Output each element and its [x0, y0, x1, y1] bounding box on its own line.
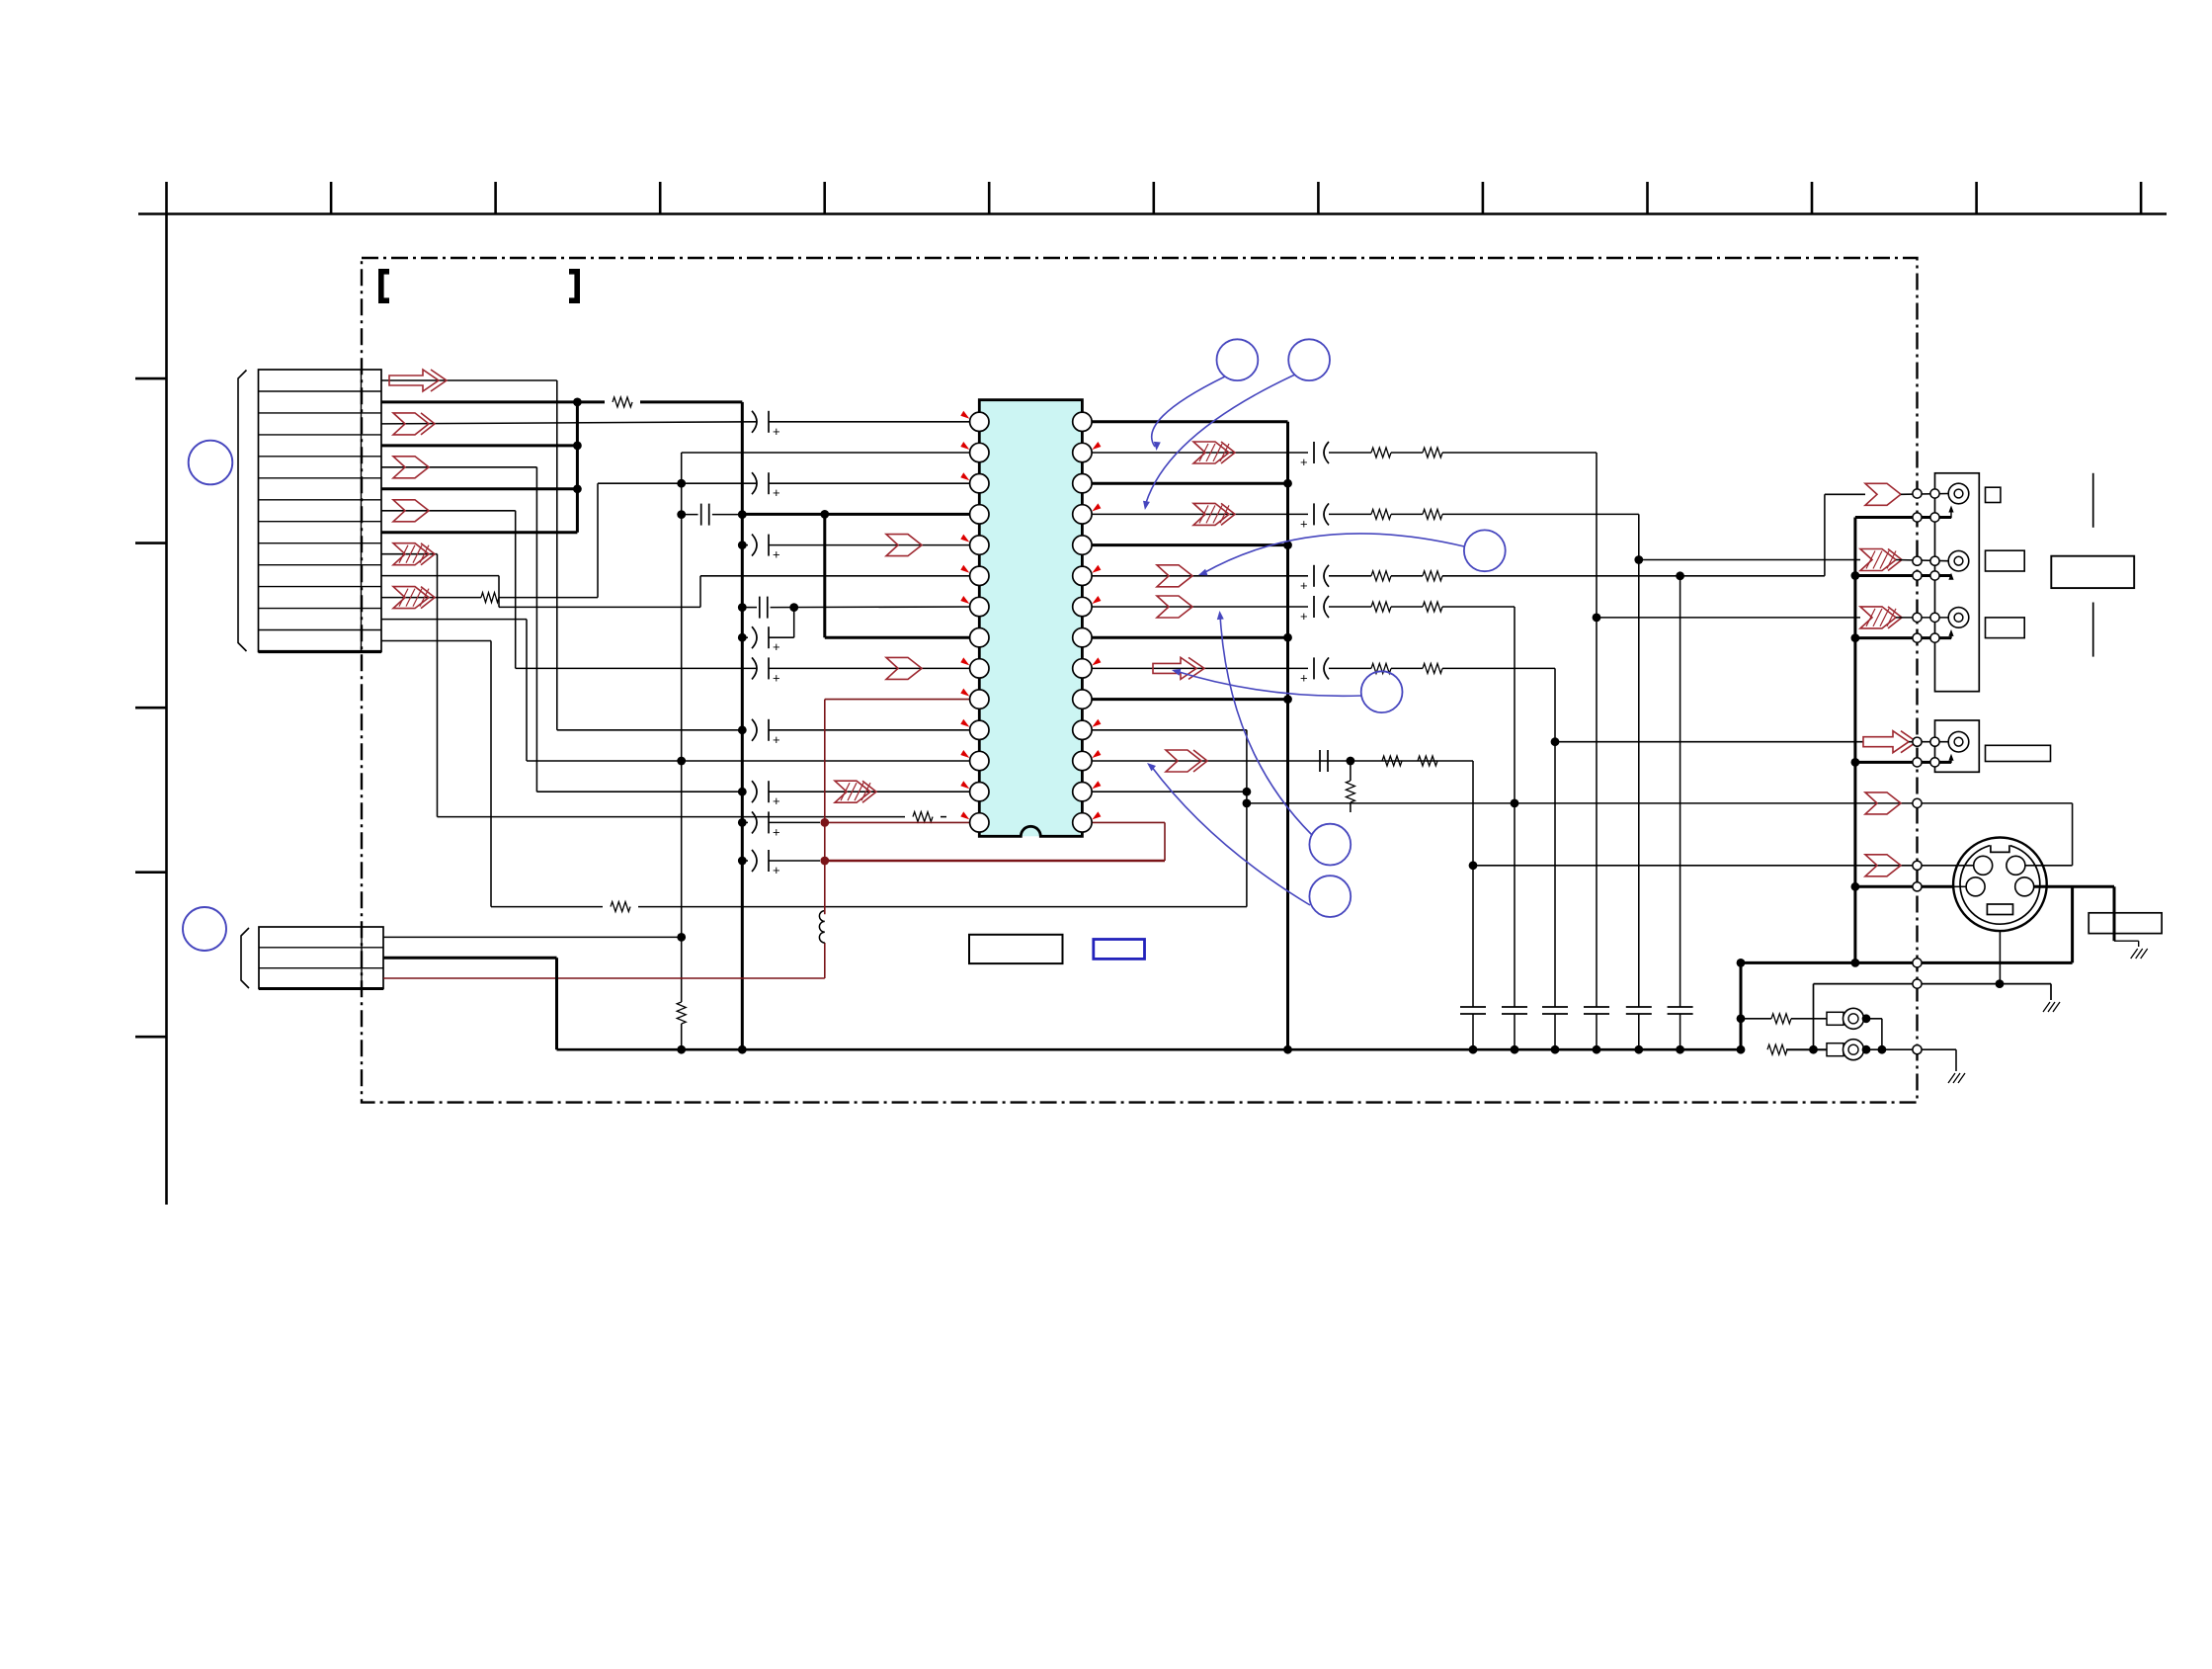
- svg-text:+: +: [1300, 670, 1308, 685]
- svg-text:+: +: [773, 424, 780, 439]
- svg-text:+: +: [773, 547, 780, 562]
- svg-text:+: +: [773, 670, 780, 685]
- svg-text:+: +: [1300, 578, 1308, 593]
- svg-text:+: +: [773, 824, 780, 839]
- svg-text:+: +: [773, 793, 780, 808]
- svg-text:+: +: [773, 732, 780, 747]
- svg-text:+: +: [1300, 609, 1308, 624]
- svg-text:+: +: [773, 863, 780, 877]
- svg-text:+: +: [773, 639, 780, 654]
- svg-text:+: +: [1300, 516, 1308, 531]
- svg-text:+: +: [773, 485, 780, 500]
- svg-text:+: +: [1300, 455, 1308, 469]
